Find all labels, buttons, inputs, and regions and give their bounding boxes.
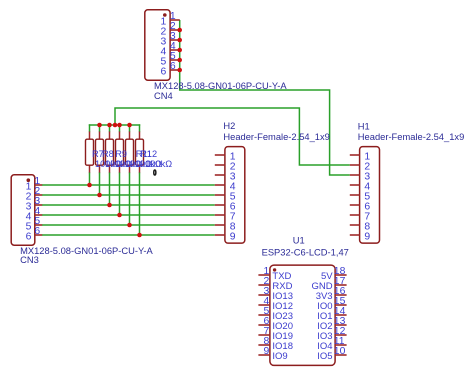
svg-text:R9: R9 [115, 149, 127, 159]
svg-text:R12: R12 [140, 149, 157, 159]
svg-text:U1: U1 [293, 235, 305, 245]
svg-text:Header-Female-2.54_1x9: Header-Female-2.54_1x9 [358, 132, 464, 142]
svg-text:CN4: CN4 [154, 91, 173, 101]
svg-text:MX128-5.08-GN01-06P-CU-Y-A: MX128-5.08-GN01-06P-CU-Y-A [20, 246, 153, 256]
svg-text:100kΩ: 100kΩ [145, 159, 172, 169]
svg-text:9: 9 [364, 232, 370, 243]
svg-text:6: 6 [34, 226, 40, 237]
svg-text:ESP32-C6-LCD-1,47: ESP32-C6-LCD-1,47 [262, 248, 349, 258]
svg-text:6: 6 [161, 67, 167, 78]
svg-text:9: 9 [230, 232, 236, 243]
svg-text:6: 6 [26, 232, 32, 243]
svg-text:6: 6 [170, 61, 176, 72]
svg-text:MX128-5.08-GN01-06P-CU-Y-A: MX128-5.08-GN01-06P-CU-Y-A [154, 81, 287, 91]
svg-text:CN3: CN3 [20, 255, 39, 265]
svg-text:9: 9 [264, 346, 270, 357]
svg-text:Header-Female-2.54_1x9: Header-Female-2.54_1x9 [223, 132, 329, 142]
svg-text:IO9: IO9 [272, 351, 287, 362]
svg-text:R8: R8 [102, 149, 114, 159]
svg-text:H2: H2 [223, 121, 235, 131]
svg-text:10: 10 [334, 346, 346, 357]
svg-text:H1: H1 [358, 122, 370, 132]
svg-text:IO5: IO5 [317, 351, 332, 362]
